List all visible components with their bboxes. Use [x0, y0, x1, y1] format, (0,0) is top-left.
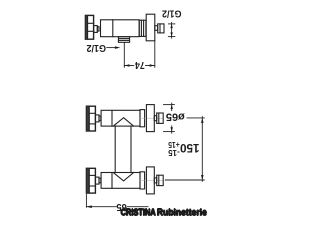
150 dim extension lines: [187, 117, 204, 119]
pipe: [114, 126, 116, 172]
150 dim line: [201, 117, 203, 182]
handle hub: [94, 26, 98, 33]
extension line: flange right edge down to 74 dim: [154, 41, 156, 68]
body seam: [112, 20, 114, 37]
bottom valve: wall nut: [157, 175, 164, 185]
svg-text:ø65: ø65: [166, 110, 185, 122]
bottom valve: chevron from pipe: [113, 173, 133, 181]
svg-text:G1/2: G1/2: [86, 42, 106, 54]
top valve: chevron to pipe: [113, 118, 133, 126]
svg-text:CRISTINA: CRISTINA: [121, 207, 157, 217]
top valve: handle bar: [86, 106, 95, 131]
extension line: outlet centre down to 74 dim: [123, 43, 125, 68]
bottom valve: hub: [95, 177, 99, 184]
outlet (threaded, under body): [118, 37, 129, 43]
dia65 dimension line segments: [171, 103, 173, 111]
top valve: stem: [154, 116, 156, 121]
wall nipple nut: [158, 24, 164, 33]
svg-text:74: 74: [135, 59, 145, 70]
65 dim extension line: [85, 194, 87, 207]
bottom valve: nut: [140, 172, 145, 189]
bottom valve: handle bar: [86, 168, 95, 193]
svg-text:+15: +15: [168, 140, 180, 149]
svg-text:Rubinetterie: Rubinetterie: [157, 207, 207, 217]
valve body: [101, 20, 140, 37]
top valve: hub: [95, 115, 99, 122]
top valve: centreline: [139, 117, 164, 119]
label 150 +15 -15: [168, 140, 200, 157]
dia65 dimension ticks: [164, 104, 175, 106]
74 dimension line: [124, 65, 134, 67]
hex nut on body: [139, 20, 146, 36]
handle spoke division lines: [88, 22, 94, 24]
bottom valve: centreline: [139, 179, 164, 181]
bottom valve: body: [101, 173, 140, 189]
handle bar (edge view): [85, 15, 93, 39]
top valve: nut: [140, 110, 145, 127]
handle inner vertical line: [87, 16, 89, 39]
top valve: body: [101, 110, 140, 126]
top valve: wall nut: [157, 113, 164, 123]
svg-text:G1/2: G1/2: [162, 7, 182, 19]
hub ring: [97, 27, 99, 31]
bottom valve: wall flange: [146, 167, 154, 194]
stem: [155, 26, 158, 31]
G1/2 top dimension line: [171, 22, 173, 38]
65 dim line: [86, 206, 116, 208]
watermark CRISTINA Rubinetterie: [120, 207, 207, 218]
wall flange: [146, 14, 155, 41]
svg-text:150: 150: [180, 141, 200, 155]
top valve: wall flange: [146, 105, 154, 132]
G1/2 leader to outlet: [107, 47, 118, 49]
bottom valve: stem: [154, 178, 156, 183]
G1/2 top dimension ticks: [168, 23, 175, 25]
